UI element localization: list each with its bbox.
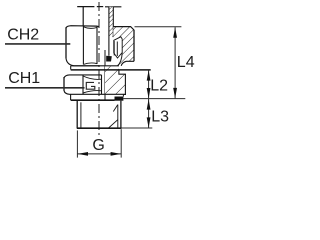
- svg-text:L3: L3: [151, 109, 169, 126]
- nut top face left: [66, 26, 99, 29]
- stud bottom inner chamfer diagonal: [109, 120, 118, 128]
- nut bottom face left with corner arcs: [66, 58, 99, 66]
- nut front face bottom chamfer arc: [83, 63, 97, 64]
- body section hatch below nut: [105, 66, 125, 94]
- svg-text:CH2: CH2: [7, 27, 39, 44]
- nut bottom right section face: [121, 61, 134, 66]
- tube top-left horizontal face: [77, 6, 94, 8]
- nut right section outer edge: [133, 30, 135, 62]
- hex CH1 top face with left corner arc: [64, 75, 102, 78]
- body bore edge (section): [104, 50, 106, 101]
- L3 bottom extension: [121, 127, 152, 129]
- body step right of washer: [119, 70, 126, 94]
- G stamp mark on hex face: [86, 82, 95, 89]
- svg-text:L2: L2: [150, 77, 168, 94]
- L2 bottom arrow: [147, 88, 151, 98]
- nut top face right + chamfer: [113, 27, 134, 30]
- nut front corner line: [96, 26, 98, 64]
- nut section hatched region: [113, 27, 134, 66]
- nut front face top chamfer arc: [83, 27, 97, 29]
- tube wall section hatch band: [109, 7, 113, 37]
- CH2 leader line: [5, 43, 70, 45]
- hex CH1 front face top chamfer arc: [83, 76, 102, 79]
- stud left edge: [76, 100, 78, 128]
- L2 dimension line: [148, 70, 150, 98]
- flange left edge: [70, 94, 72, 100]
- tube top-right horizontal face: [105, 6, 121, 8]
- stud thread left line: [80, 102, 82, 128]
- washer bottom face + L2 top extension: [71, 69, 151, 71]
- G dimension line: [77, 153, 121, 155]
- cutting ring edge line: [116, 42, 118, 57]
- stud right edge: [120, 101, 122, 129]
- L3 top arrow: [147, 99, 151, 109]
- G left arrow: [78, 152, 88, 156]
- stud thread right line: [117, 105, 119, 129]
- L2 top arrow: [147, 70, 151, 80]
- hex CH1 corner line: [101, 75, 103, 94]
- mid extension line (flange plane): [124, 98, 186, 100]
- L4 top arrow: [173, 27, 177, 37]
- L4 top extension line: [135, 26, 182, 28]
- hex CH1 facet line: [82, 75, 84, 94]
- nut section inner white wedge (cutting ring pocket): [114, 37, 122, 58]
- L4 dimension line: [174, 27, 176, 98]
- G extension line left: [76, 130, 78, 157]
- tube wall inner edge: [108, 7, 110, 56]
- hex CH1 front face bottom chamfer arc: [83, 91, 102, 93]
- washer left edge: [70, 66, 72, 70]
- cutting ring dark blob: [106, 56, 112, 62]
- cutting ring left edge: [113, 41, 115, 56]
- centerline: [98, 0, 100, 136]
- svg-text:G: G: [92, 137, 104, 154]
- tube left outer edge: [82, 6, 84, 26]
- seal black square: [115, 97, 124, 101]
- L3 bottom arrow: [147, 117, 151, 127]
- nut hex facet line: [82, 26, 84, 64]
- stud thread runout diagonal: [113, 105, 117, 112]
- svg-text:CH1: CH1: [8, 70, 40, 87]
- hex CH1 bottom face with left corner arc: [64, 91, 125, 95]
- nut left edge: [65, 27, 67, 58]
- G right arrow: [111, 152, 121, 156]
- seal step line to hex: [123, 95, 126, 97]
- L4 bottom arrow: [173, 88, 177, 98]
- L3 dimension line: [148, 99, 150, 128]
- washer top face (nut seat): [71, 65, 119, 67]
- nut skirt inner curve: [118, 53, 123, 66]
- CH1 leader line: [5, 87, 85, 89]
- tube top center tick: [97, 6, 103, 8]
- tube wall outer edge: [112, 7, 114, 37]
- hex CH1 left edge: [63, 77, 65, 91]
- flange bottom face: [71, 99, 115, 101]
- G extension line right: [120, 129, 122, 157]
- svg-text:L4: L4: [177, 54, 195, 71]
- stud bottom face: [77, 127, 122, 129]
